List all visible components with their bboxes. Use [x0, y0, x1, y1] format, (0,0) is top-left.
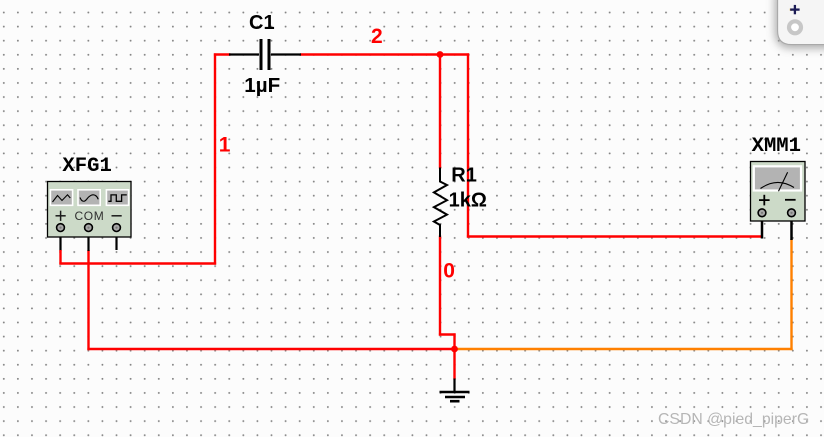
wire net0 orange vertical to XMM- — [790, 239, 792, 350]
wire net0 resistor bottom down — [439, 236, 441, 336]
ui overlay panel — [775, 0, 824, 49]
ground — [440, 379, 470, 402]
wire net1 vertical from XFG+ — [59, 250, 61, 265]
XMM1 terminal + — [758, 209, 766, 217]
wire net2 down to resistor — [439, 55, 441, 169]
node 0 junction dot — [451, 346, 458, 353]
XFG1 sine wave button — [78, 190, 100, 206]
XMM1 display — [754, 166, 801, 191]
resistor R1 — [434, 168, 447, 238]
XFG1 terminal + — [57, 224, 65, 232]
wire net1 vertical riser — [214, 53, 216, 264]
svg-text:1kΩ: 1kΩ — [449, 189, 487, 211]
XMM1 terminal - — [788, 209, 796, 217]
svg-text:COM: COM — [75, 209, 105, 223]
XFG1 minus label — [112, 215, 122, 217]
wire net1 horizontal bottom — [59, 262, 216, 264]
svg-text:C1: C1 — [249, 12, 275, 34]
XFG1 terminal COM — [85, 224, 93, 232]
ui overlay plus icon — [790, 5, 800, 14]
svg-text:0: 0 — [443, 260, 455, 283]
XFG1 triangle wave button — [50, 190, 72, 206]
svg-text:1µF: 1µF — [244, 74, 280, 97]
wire net2 horizontal to XMM1 — [467, 235, 762, 237]
svg-text:2: 2 — [371, 25, 383, 48]
wire net0 jog down to junction — [453, 333, 455, 349]
svg-text:XMM1: XMM1 — [752, 135, 801, 158]
capacitor C1 — [229, 39, 301, 70]
function generator XFG1 body — [48, 182, 132, 238]
XFG1 terminal - — [113, 224, 121, 232]
wire net1 XFG+ stub (black) — [59, 231, 61, 251]
wire net2 vertical to XMM branch — [467, 53, 469, 237]
XMM1 plus label — [759, 195, 770, 206]
ui overlay circle icon — [787, 19, 803, 35]
wire net0 bottom horizontal — [87, 348, 455, 350]
XFG1 plus label — [56, 211, 66, 221]
wire XMM+ stub (black) — [761, 216, 764, 239]
wire XFG COM stub (black) — [87, 231, 89, 251]
wire net1 top to capacitor — [214, 53, 231, 55]
wire net0 orange horizontal — [453, 348, 792, 350]
wire net0 junction to ground — [453, 349, 455, 380]
svg-text:CSDN @pied_piperG: CSDN @pied_piperG — [658, 411, 809, 428]
wire XMM- stub (black) — [790, 216, 793, 240]
wire XFG- stub (black) — [115, 231, 117, 250]
svg-text:XFG1: XFG1 — [62, 155, 111, 178]
XFG1 square wave button — [106, 190, 128, 206]
wire net0 XFG COM vertical — [87, 250, 89, 350]
node 2 junction dot — [437, 51, 444, 58]
XMM1 minus label — [785, 199, 796, 201]
wire net0 jog right — [439, 333, 456, 335]
multimeter XMM1 body — [751, 162, 806, 222]
wire net2 capacitor to junction — [300, 53, 469, 55]
svg-text:R1: R1 — [451, 164, 477, 186]
svg-text:1: 1 — [219, 134, 231, 157]
